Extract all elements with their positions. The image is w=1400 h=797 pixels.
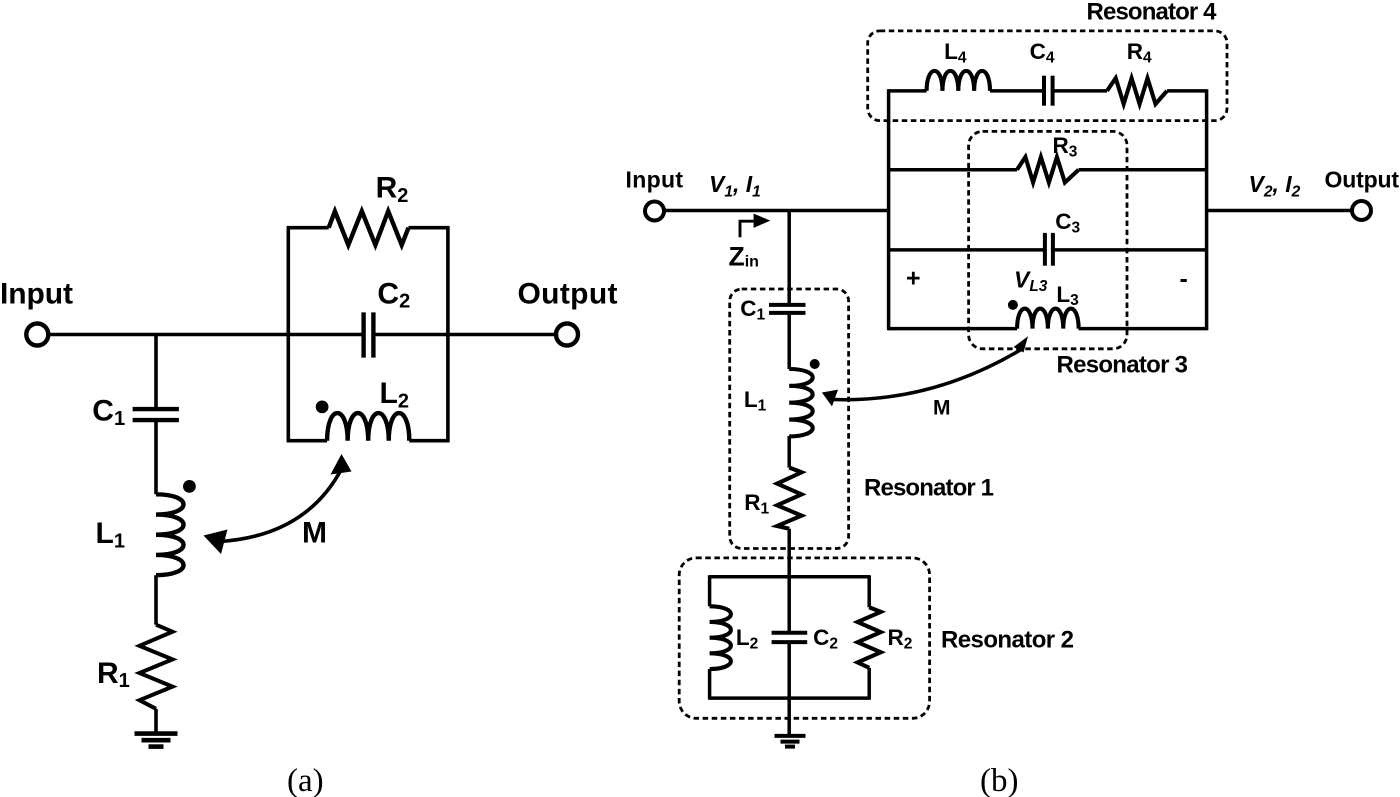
wire: bottom branch right segment (b) [1079, 327, 1207, 331]
resonator 4 dashed box [868, 31, 1227, 121]
wire: main box left vertical (b) [887, 89, 891, 330]
wire: C3 branch left segment [889, 248, 1045, 252]
resistor R1 (b) [777, 468, 802, 529]
inductor L2 (a) [327, 413, 409, 441]
wire: bottom branch right segment (a) [409, 439, 449, 443]
resistor R1 (a) [140, 625, 173, 709]
polarity dot L1 (a) [183, 480, 196, 493]
capacitor C1 (a) [133, 409, 179, 420]
capacitor C1 (b) [769, 305, 806, 313]
svg-text:Output: Output [518, 278, 618, 311]
wire: box left vertical (a) [286, 228, 290, 441]
wire: C3 branch right segment [1053, 248, 1207, 252]
wire: input to box (b) [664, 209, 889, 213]
svg-text:M: M [302, 517, 327, 550]
inductor L4 [927, 71, 990, 91]
wire: R3 branch left segment [889, 168, 1017, 172]
resistor R3 [1017, 157, 1079, 183]
svg-text:Resonator 2: Resonator 2 [941, 627, 1074, 654]
wire: C2 to rect bottom (b) [787, 642, 791, 736]
wire: rect left edge upper segment [708, 575, 712, 606]
wire: C2 right to output (a) [373, 333, 556, 337]
mutual coupling arrow M (b) [822, 336, 1028, 406]
polarity dot L3 [1008, 300, 1018, 310]
svg-text:M: M [933, 397, 951, 420]
wire: rect right edge upper segment [867, 575, 871, 607]
svg-text:(a): (a) [287, 763, 324, 797]
wire: top branch left segment (a) [287, 226, 329, 230]
wire: L4 to C4 [990, 89, 1044, 93]
output terminal (b) [1352, 201, 1371, 220]
wire: L1 to R1 (b) [787, 436, 791, 468]
capacitor C2 (b) [772, 633, 808, 642]
wire: C1 to L1 (b) [787, 313, 791, 369]
inductor L1 (b) [789, 369, 812, 436]
input terminal (a) [26, 324, 48, 346]
node junction (b) [787, 211, 791, 305]
svg-text:Resonator 3: Resonator 3 [1057, 352, 1189, 379]
wire: bottom branch left segment (b) [889, 327, 1018, 331]
wire: rect right edge lower segment [867, 668, 871, 700]
wire: resonator 2 rect top edge [710, 575, 870, 579]
svg-text:+: + [906, 265, 921, 293]
resistor R2 (b) [858, 607, 881, 668]
resonator 2 dashed box [679, 558, 929, 718]
inductor L1 (a) [156, 494, 184, 575]
resonator 3 dashed box [969, 131, 1127, 348]
capacitor C4 [1044, 76, 1053, 106]
svg-text:Input: Input [626, 167, 684, 193]
output terminal (a) [556, 324, 578, 346]
svg-text:Resonator 1: Resonator 1 [864, 475, 994, 502]
wire: junction down to C1 (a) [154, 335, 158, 410]
ground (b) [775, 736, 806, 747]
resonator 1 dashed box [730, 289, 849, 549]
svg-text:-: - [1180, 265, 1188, 293]
wire: resonator 2 rect bottom edge [710, 696, 870, 700]
wire: input to C2 left (a) [48, 333, 363, 337]
wire: rect left edge lower segment [708, 669, 712, 700]
resistor R4 [1107, 78, 1167, 104]
input terminal (b) [645, 202, 664, 221]
wire: box to output (b) [1207, 209, 1352, 213]
svg-text:Resonator 4: Resonator 4 [1087, 0, 1218, 26]
svg-text:Input: Input [0, 278, 73, 311]
impedance arrow Zin [740, 214, 770, 238]
wire: R1 down through rect top to C2 (b) [787, 529, 791, 633]
resistor R2 (a) [329, 211, 409, 245]
inductor L2 (b) [710, 606, 731, 669]
polarity dot L1 (b) [810, 359, 820, 369]
mutual coupling arrow M (a) [204, 454, 352, 554]
wire: C1 to L1 (a) [154, 420, 158, 494]
wire: main box right vertical (b) [1205, 89, 1209, 330]
wire: bottom branch left segment (a) [287, 439, 328, 443]
wire: L1 to R1 (a) [154, 575, 158, 625]
wire: top branch right segment (a) [409, 226, 450, 230]
svg-text:Output: Output [1325, 167, 1400, 193]
wire: box right vertical (a) [446, 228, 450, 441]
inductor L3 [1017, 309, 1079, 329]
polarity dot L2 (a) [316, 401, 329, 414]
wire: R4 to box right (b) [1167, 89, 1207, 93]
wire: C4 to R4 [1053, 89, 1107, 93]
wire: top branch segment box to L4 [889, 89, 927, 93]
capacitor C2 (a) [364, 312, 374, 357]
wire: R3 branch right segment [1079, 168, 1207, 172]
svg-text:(b): (b) [980, 763, 1018, 797]
ground (a) [135, 734, 178, 747]
wire: R1 to ground (a) [154, 709, 158, 734]
capacitor C3 [1045, 233, 1053, 266]
